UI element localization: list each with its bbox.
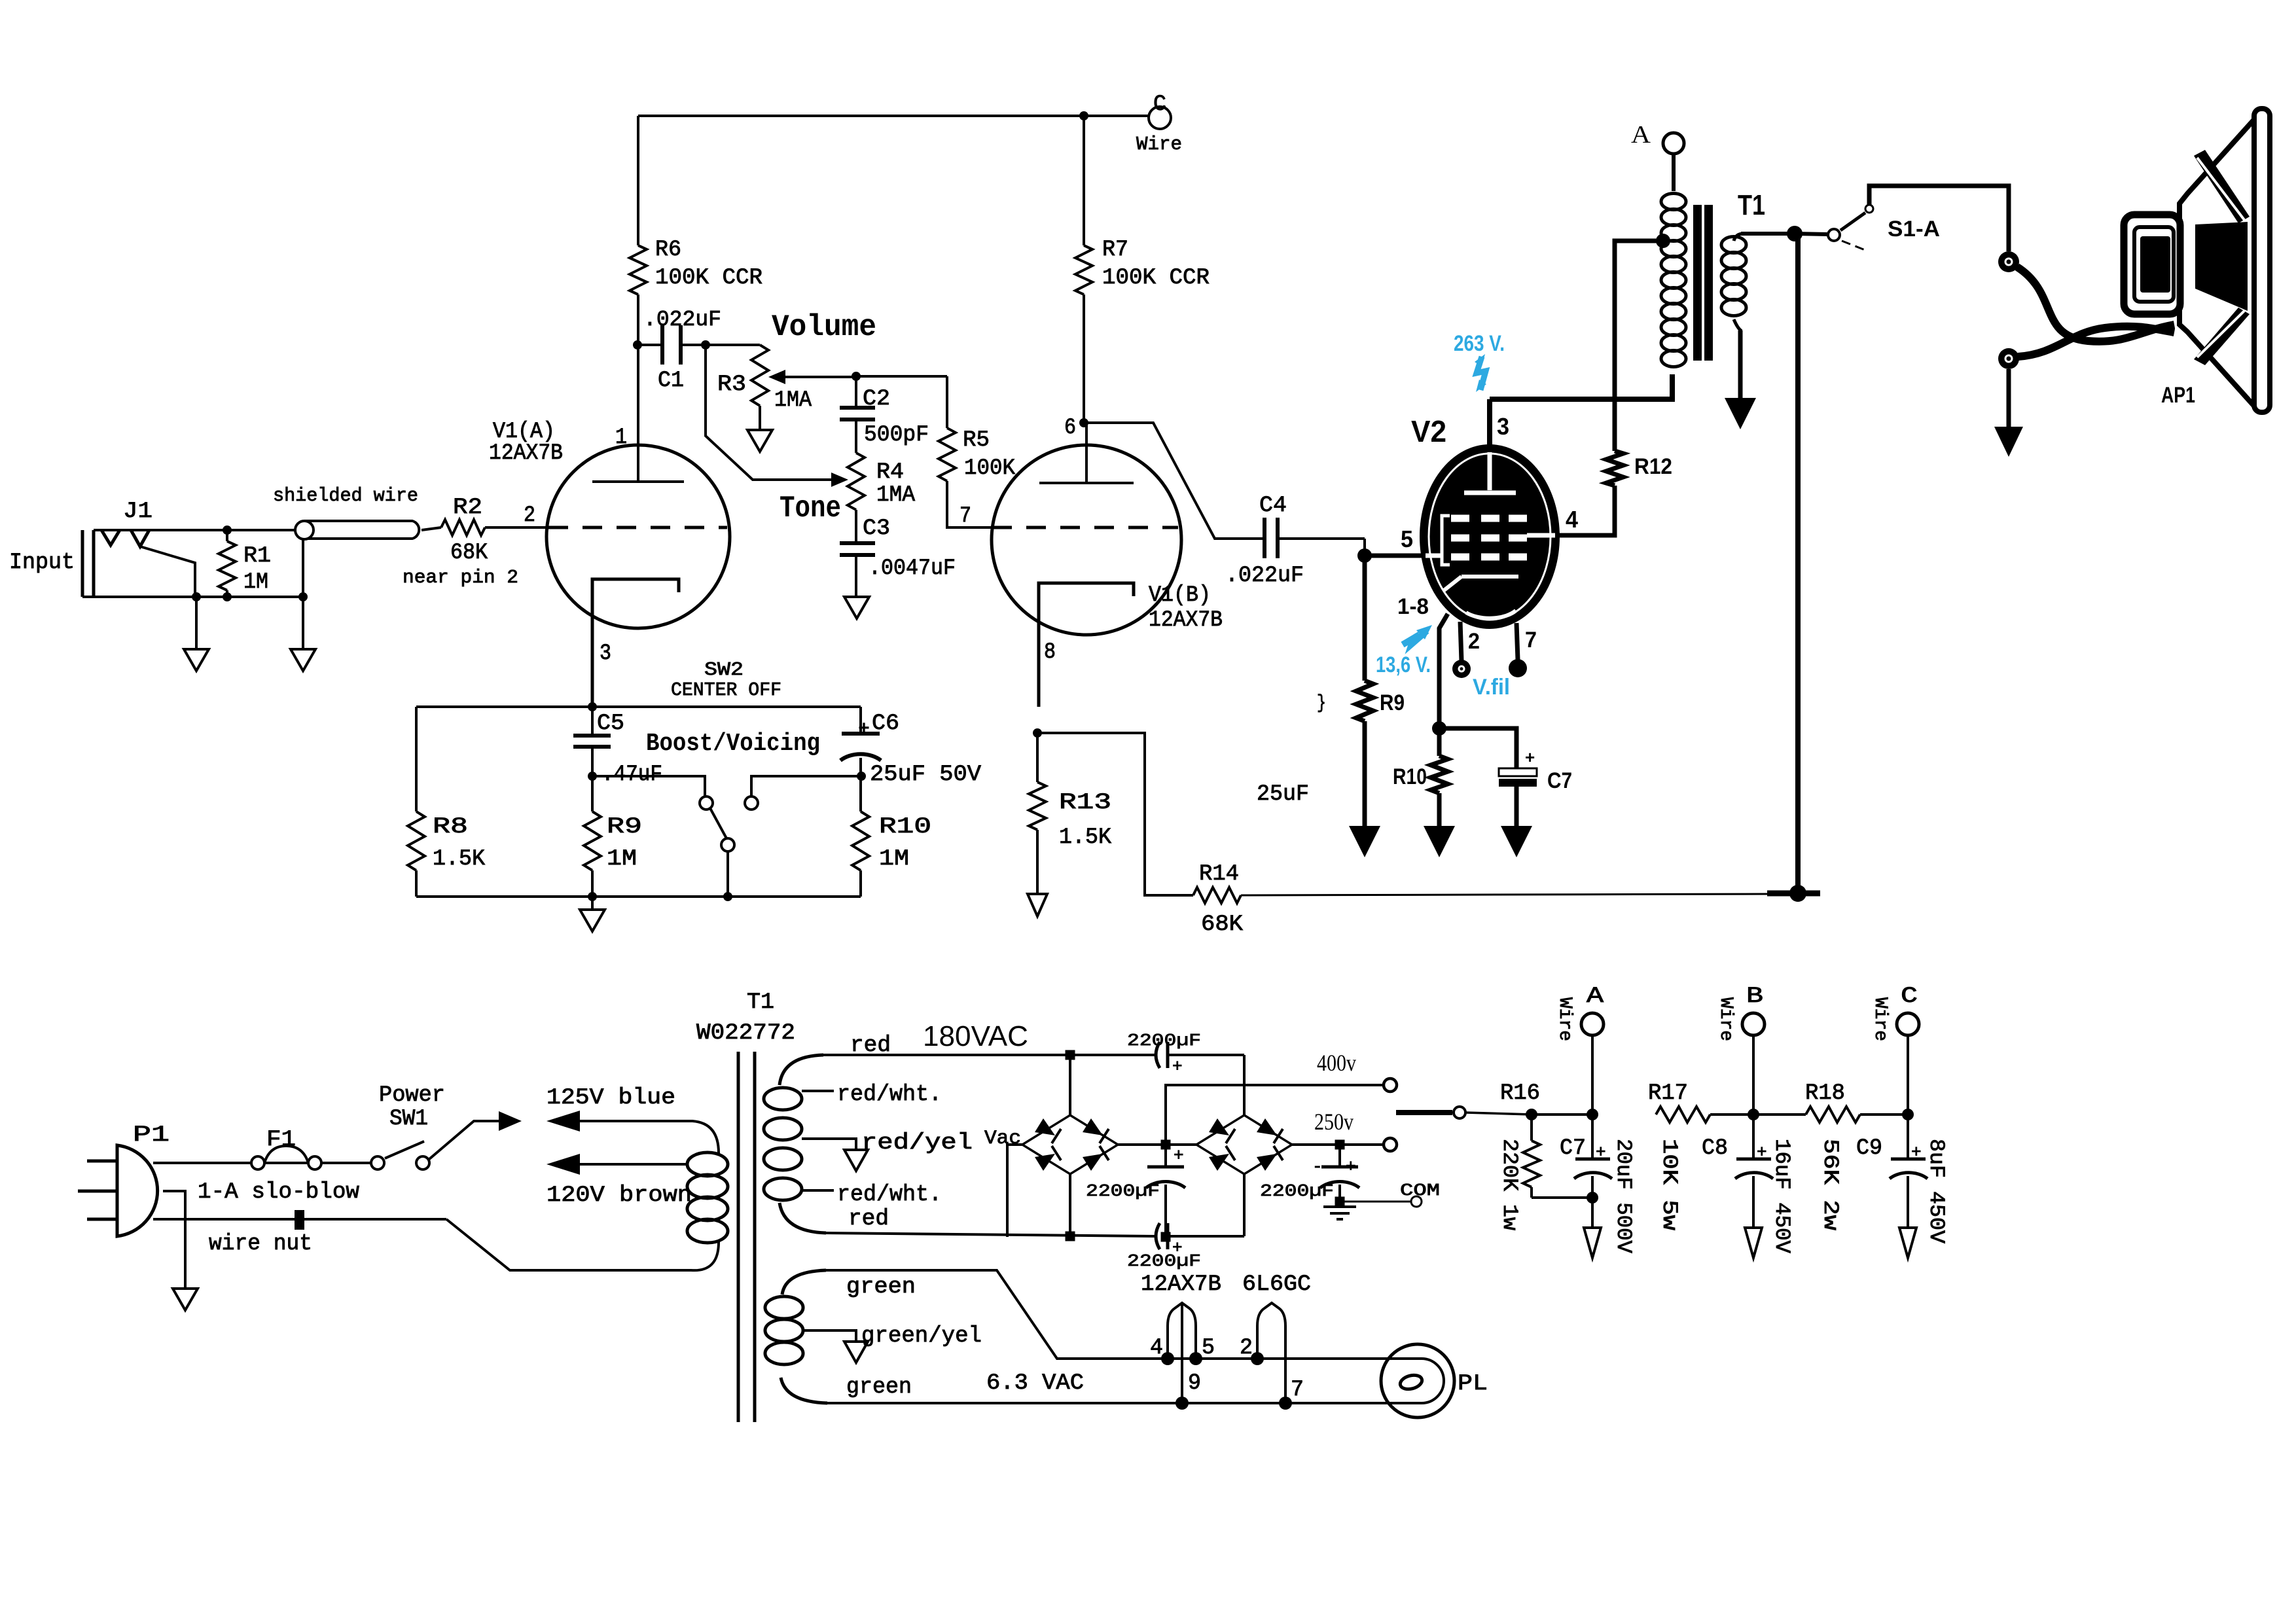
wire C1 to R3	[706, 344, 760, 346]
svg-text:red: red	[848, 1207, 889, 1232]
svg-text:green: green	[846, 1275, 916, 1300]
svg-text:Wire: Wire	[1715, 997, 1736, 1041]
svg-text:180VAC: 180VAC	[923, 1020, 1028, 1052]
svg-text:3: 3	[600, 641, 611, 666]
svg-text:Volume: Volume	[772, 310, 876, 344]
wire V2 pin 3	[1487, 399, 1492, 448]
svg-text:25uF: 25uF	[1257, 782, 1309, 807]
capacitor C7 (power supply)	[1591, 1115, 1594, 1159]
wire HV bottom rail	[826, 1233, 1155, 1236]
wire 250v connector stub	[1396, 1110, 1452, 1115]
svg-text:250v: 250v	[1314, 1109, 1354, 1135]
svg-text:SW2: SW2	[704, 659, 744, 681]
resistor R14	[1193, 887, 1241, 903]
wire SW1 to arrow	[429, 1121, 499, 1159]
svg-text:+: +	[1525, 747, 1535, 767]
svg-text:68K: 68K	[1201, 912, 1244, 937]
svg-text:8: 8	[1044, 640, 1056, 665]
svg-text:near pin 2: near pin 2	[403, 567, 518, 588]
V1A cathode (pin 3)	[592, 579, 679, 707]
ground plug	[173, 1289, 198, 1310]
wire R10 top	[859, 776, 862, 811]
svg-text:12AX7B: 12AX7B	[1149, 608, 1223, 633]
node pin 4	[1161, 1352, 1174, 1365]
capacitor C1	[637, 344, 662, 346]
svg-text:Power: Power	[379, 1083, 445, 1108]
tap red/wht lower	[802, 1189, 834, 1192]
wire C2 node to R5	[856, 375, 947, 378]
svg-text:.0047uF: .0047uF	[869, 556, 956, 581]
svg-text:4: 4	[1566, 506, 1578, 533]
svg-text:PL: PL	[1458, 1372, 1488, 1397]
svg-text:}: }	[1317, 692, 1326, 715]
svg-text:7: 7	[960, 504, 971, 529]
svg-text:8uF 450V: 8uF 450V	[1924, 1139, 1948, 1244]
wire R9 top	[591, 776, 594, 811]
wire 125V to primary	[580, 1121, 719, 1153]
svg-text:R16: R16	[1500, 1081, 1540, 1106]
speaker cone bottom slit	[2194, 308, 2250, 365]
svg-text:2200µF: 2200µF	[1127, 1251, 1201, 1271]
svg-text:C2: C2	[863, 387, 890, 412]
svg-text:V.fil: V.fil	[1473, 675, 1510, 700]
wire heater bus bottom	[827, 1402, 1388, 1404]
node pin8/R13	[1033, 728, 1042, 738]
bridge rectifier left (Vac)	[1022, 1115, 1118, 1174]
wire R5 to V1B grid (pin 7)	[947, 481, 992, 527]
svg-text:R12: R12	[1634, 454, 1672, 479]
shielded wire symbol	[304, 521, 419, 539]
svg-text:1M: 1M	[607, 847, 637, 872]
heater 6L6GC symbol	[1257, 1303, 1285, 1403]
svg-text:220K 1w: 220K 1w	[1498, 1139, 1522, 1230]
wire speaker terminal to ground	[2007, 369, 2011, 427]
svg-text:V2: V2	[1411, 414, 1446, 448]
resistor R8	[408, 811, 425, 870]
svg-text:1-8: 1-8	[1397, 594, 1429, 619]
capacitor 2200uF top	[1156, 1042, 1160, 1068]
ground SW2 rail	[591, 897, 594, 910]
svg-text:5: 5	[1401, 526, 1413, 552]
node COM junction	[1335, 1197, 1345, 1207]
ground arrow C7b	[1501, 826, 1532, 857]
connector arrow left 120V	[547, 1154, 580, 1175]
speaker AP1 baffle	[2254, 109, 2270, 412]
wire bridges mid link	[1118, 1143, 1196, 1146]
tap red/yel	[802, 1139, 856, 1150]
ground arrow secondary	[1725, 398, 1756, 429]
svg-text:Vac: Vac	[984, 1128, 1021, 1150]
svg-text:red/wht.: red/wht.	[837, 1183, 942, 1207]
svg-text:red/wht.: red/wht.	[837, 1082, 942, 1107]
svg-text:120V brown: 120V brown	[547, 1183, 692, 1208]
resistor R13	[1036, 733, 1039, 782]
svg-text:C7: C7	[1560, 1136, 1586, 1161]
svg-text:100K: 100K	[964, 456, 1016, 481]
svg-text:1MA: 1MA	[876, 483, 916, 508]
HV secondary winding	[780, 1055, 823, 1085]
svg-text:2200µF: 2200µF	[1086, 1181, 1160, 1201]
switch S1-A contact	[1828, 229, 1840, 241]
wire F1 to SW1	[321, 1162, 371, 1164]
potentiometer R3 Volume	[751, 345, 768, 406]
svg-text:1-A slo-blow: 1-A slo-blow	[198, 1180, 360, 1205]
connector arrow left 125V	[547, 1111, 580, 1132]
svg-text:12AX7B: 12AX7B	[489, 441, 563, 466]
tube V1B envelope	[992, 445, 1181, 635]
svg-text:wire nut: wire nut	[209, 1232, 312, 1257]
svg-text:2: 2	[1468, 629, 1480, 654]
svg-text:W022772: W022772	[696, 1021, 795, 1046]
node C1 left	[633, 340, 642, 349]
ground R3	[747, 430, 772, 452]
svg-text:Input: Input	[9, 550, 75, 575]
wire output bus vertical	[1795, 234, 1801, 893]
svg-text:1M: 1M	[243, 570, 268, 595]
wire R18 to C	[1860, 1113, 1908, 1116]
svg-text:J1: J1	[123, 499, 152, 524]
node pin 6	[1079, 418, 1088, 427]
wire R16 node to A node	[1532, 1113, 1592, 1116]
svg-text:20uF 500V: 20uF 500V	[1611, 1139, 1636, 1254]
resistor R12	[1606, 451, 1623, 486]
wire R9 bottom	[591, 870, 594, 897]
V2 pin 7 lead	[1516, 623, 1518, 660]
wire stub at output node	[1767, 891, 1820, 897]
wire secondary top	[1734, 234, 1744, 241]
svg-text:25uF 50V: 25uF 50V	[870, 762, 982, 787]
svg-text:+: +	[1596, 1143, 1606, 1162]
speaker cone opening	[2195, 222, 2248, 311]
terminal 250v	[1384, 1138, 1397, 1151]
node 1-8/R10/C7	[1432, 721, 1446, 736]
svg-text:S1-A: S1-A	[1888, 217, 1940, 241]
svg-text:1.5K: 1.5K	[433, 847, 486, 872]
V1A plate (pin 1)	[637, 345, 639, 482]
tap red/wht upper	[802, 1090, 834, 1092]
wire 400v riser	[1166, 1085, 1384, 1145]
svg-text:C8: C8	[1702, 1136, 1728, 1161]
svg-text:7: 7	[1291, 1378, 1304, 1402]
bridge rectifier right	[1196, 1115, 1292, 1174]
node secondary/S1A	[1787, 226, 1803, 241]
node 250v tap	[1335, 1140, 1345, 1150]
svg-text:7: 7	[1525, 628, 1537, 652]
wire R16 bottom	[1532, 1196, 1592, 1199]
capacitor 2200uF right	[1338, 1145, 1341, 1167]
switch SW2 pole contact	[721, 838, 734, 851]
node C5 bottom	[588, 772, 597, 781]
V1A grid dashed line	[548, 526, 727, 529]
svg-text:10K 5w: 10K 5w	[1657, 1139, 1681, 1230]
svg-text:R8: R8	[433, 815, 468, 840]
speaker magnet	[2124, 215, 2180, 314]
T1 core	[1693, 205, 1702, 361]
wire pin8 node to R14	[1037, 733, 1193, 895]
resistor R9 (cathode, bold)	[1356, 681, 1373, 721]
wire secondary bottom	[1734, 319, 1742, 331]
blue arrow 263V	[1477, 357, 1486, 390]
lamp PL loop	[1388, 1359, 1444, 1403]
svg-text:500pF: 500pF	[864, 423, 929, 448]
svg-text:+: +	[1757, 1143, 1767, 1162]
node SW2 pole bottom	[723, 892, 732, 901]
svg-text:Tone: Tone	[780, 491, 841, 526]
svg-text:100K CCR: 100K CCR	[1102, 266, 1210, 291]
svg-text:R17: R17	[1648, 1081, 1688, 1106]
svg-text:4: 4	[1150, 1336, 1163, 1361]
node primary tap	[1656, 234, 1670, 248]
wire A vertical	[1591, 1035, 1594, 1115]
pin 2 terminal	[1452, 660, 1471, 678]
connector arrow right	[499, 1111, 522, 1131]
connector circle	[1454, 1107, 1465, 1118]
node B rail	[1748, 1109, 1759, 1120]
wire R6 bottom to C1 node	[637, 294, 639, 345]
V2 grid bracket	[1442, 516, 1450, 565]
svg-text:400v: 400v	[1317, 1050, 1356, 1076]
svg-text:100K CCR: 100K CCR	[655, 266, 762, 291]
node pin 9	[1175, 1397, 1189, 1410]
earth ground	[1338, 1202, 1341, 1207]
svg-text:125V blue: 125V blue	[547, 1086, 675, 1111]
svg-text:2200µF: 2200µF	[1127, 1031, 1201, 1050]
heater 12AX7B symbol	[1168, 1303, 1196, 1359]
node ground rail	[588, 892, 597, 901]
pin 7 terminal	[1509, 659, 1527, 677]
wire left bridge AC- loop	[1007, 1145, 1023, 1237]
switch SW1	[371, 1156, 384, 1169]
svg-text:68K: 68K	[450, 541, 488, 565]
terminal C (wire C)	[1149, 107, 1171, 129]
svg-text:3: 3	[1497, 413, 1509, 440]
svg-text:-: -	[1312, 1157, 1323, 1177]
svg-text:2: 2	[1240, 1336, 1253, 1361]
wire R6 top	[637, 116, 639, 245]
junction node top of R7	[1079, 111, 1088, 120]
node C4/R9/pin5	[1357, 548, 1372, 563]
heater winding	[782, 1270, 826, 1294]
node pin 5	[1189, 1352, 1202, 1365]
switch SW2 left wire	[592, 776, 705, 796]
svg-text:R1: R1	[243, 544, 271, 569]
V2 pin 2 lead	[1460, 622, 1462, 661]
wire to COM	[1340, 1201, 1411, 1203]
switch S1-A lever	[1840, 213, 1865, 230]
resistor R6	[630, 245, 647, 294]
node pin 7 (6L6GC)	[1279, 1397, 1292, 1410]
svg-text:R10: R10	[1393, 764, 1427, 789]
speaker terminal bottom	[1998, 348, 2019, 369]
svg-text:R4: R4	[876, 460, 904, 485]
node R16 tap	[1526, 1109, 1537, 1120]
resistor R10 (bold)	[1431, 756, 1448, 793]
wire R10b bottom	[1437, 793, 1442, 826]
wire C7b bottom	[1515, 787, 1519, 826]
svg-text:shielded wire: shielded wire	[273, 485, 418, 507]
svg-text:2200µF: 2200µF	[1260, 1181, 1334, 1201]
wire pin3 to T1 primary	[1490, 374, 1672, 399]
plug P1	[117, 1145, 158, 1236]
V2 cathode white	[1462, 575, 1518, 579]
wire V1B plate to C4	[1084, 423, 1265, 539]
capacitor C3	[855, 510, 857, 543]
jack J1 tip contact	[101, 530, 120, 545]
svg-text:CENTER OFF: CENTER OFF	[671, 679, 781, 701]
wire node to S1A contact	[1795, 234, 1828, 234]
svg-text:green/yel: green/yel	[861, 1324, 982, 1349]
svg-text:R3: R3	[717, 372, 746, 397]
node cathode pin3	[588, 702, 597, 711]
svg-text:R6: R6	[655, 238, 681, 262]
V1B cathode (pin 8)	[1039, 583, 1134, 707]
wire C1 node down to tone wiper	[706, 345, 838, 480]
svg-text:C5: C5	[597, 711, 624, 736]
node middle cap bottom	[1161, 1232, 1171, 1242]
capacitor C8	[1752, 1115, 1755, 1159]
switch SW2 right contact	[745, 796, 758, 810]
node output bus bottom	[1789, 885, 1806, 902]
svg-text:C: C	[1901, 984, 1918, 1009]
svg-text:+: +	[1174, 1146, 1184, 1166]
ground arrow A	[1591, 1198, 1594, 1228]
node top rail left	[1066, 1050, 1075, 1060]
svg-text:AP1: AP1	[2161, 383, 2195, 408]
capacitor C4	[1263, 518, 1266, 558]
svg-text:B: B	[1746, 984, 1763, 1009]
V2 grid rows	[1451, 518, 1527, 557]
node C rail	[1902, 1109, 1914, 1120]
capacitor 2200uF bottom	[1156, 1223, 1160, 1249]
node R1 bottom	[223, 592, 232, 601]
wire R7 top	[1083, 116, 1085, 245]
node sleeve ground	[192, 592, 201, 601]
switch SW2 lever	[710, 808, 726, 838]
svg-text:+: +	[1911, 1143, 1922, 1162]
tube V1A envelope	[547, 445, 730, 628]
wire node to V2 pin 5	[1365, 554, 1424, 558]
resistor R2	[441, 520, 485, 535]
svg-text:P1: P1	[133, 1123, 170, 1148]
wire bottom rail to left bridge	[1069, 1174, 1071, 1236]
ground arrow B	[1745, 1228, 1762, 1258]
ground C3	[844, 597, 869, 618]
wire V1A cathode bus	[416, 705, 861, 708]
jack J1 ring contact	[131, 530, 149, 546]
svg-text:.022uF: .022uF	[1225, 563, 1304, 588]
svg-text:6.3 VAC: 6.3 VAC	[986, 1371, 1084, 1396]
capacitor C5	[591, 707, 594, 736]
capacitor C9	[1907, 1115, 1909, 1159]
resistor R7	[1075, 245, 1092, 294]
ground arrow speaker	[1994, 427, 2023, 457]
wire plug to F1	[153, 1162, 251, 1164]
svg-text:C7: C7	[1547, 768, 1572, 793]
speaker flexible wire top	[2017, 267, 2174, 342]
wire R10b top	[1437, 728, 1442, 756]
resistor R17	[1656, 1107, 1710, 1122]
capacitor 2200uF middle	[1164, 1145, 1167, 1167]
resistor R10	[852, 811, 869, 870]
svg-text:C1: C1	[658, 368, 684, 393]
R4 wiper arrow	[831, 473, 848, 487]
wire R9b bottom	[1363, 721, 1367, 826]
ground input rail	[302, 597, 304, 649]
wire R10 bottom	[859, 870, 862, 897]
speaker flexible wire bottom	[2018, 327, 2174, 357]
V2 plate	[1488, 452, 1492, 490]
node A rail	[1587, 1109, 1598, 1120]
R3 wiper arrow	[783, 376, 855, 378]
wire B to R18	[1753, 1113, 1806, 1116]
speaker terminal top	[1998, 251, 2019, 272]
wire R12 top to primary tap	[1615, 241, 1663, 451]
wire HV top rail	[823, 1054, 1155, 1056]
wire top rail to right bridge	[1243, 1055, 1246, 1116]
svg-text:Wire: Wire	[1554, 997, 1575, 1041]
node shield ground	[298, 592, 308, 601]
fuse F1	[251, 1156, 264, 1169]
T1 primary coil	[1661, 194, 1686, 210]
svg-text:R18: R18	[1805, 1081, 1845, 1106]
capacitor C2	[855, 376, 857, 408]
potentiometer R4 Tone	[848, 453, 865, 510]
ground arrow R10b	[1424, 826, 1455, 857]
wire R8 top	[415, 707, 418, 811]
T1 power core	[737, 1052, 740, 1422]
svg-text:C6: C6	[872, 711, 899, 736]
wire right bridge out	[1292, 1143, 1384, 1146]
resistor R5	[946, 376, 948, 428]
svg-text:COM: COM	[1400, 1181, 1440, 1200]
terminal 400v	[1384, 1079, 1397, 1092]
wire top bus from R6 to R7 and terminal C	[638, 115, 1149, 117]
svg-text:1MA: 1MA	[774, 388, 812, 413]
T1 secondary coil	[1721, 237, 1746, 253]
wire jack sleeve branch	[140, 546, 195, 597]
svg-text:16uF 450V: 16uF 450V	[1770, 1139, 1794, 1254]
wire R2 to V1A grid (pin 2)	[485, 526, 548, 529]
svg-text:R5: R5	[963, 428, 990, 453]
wire V2 pin 4 to R12	[1556, 486, 1615, 535]
svg-text:+: +	[1172, 1057, 1183, 1077]
svg-text:Wire: Wire	[1870, 997, 1890, 1041]
svg-text:13,6 V.: 13,6 V.	[1376, 652, 1431, 677]
svg-text:56K 2w: 56K 2w	[1818, 1139, 1842, 1230]
svg-text:C4: C4	[1259, 493, 1287, 518]
wire jack bottom rail	[82, 596, 303, 598]
svg-text:A: A	[1587, 984, 1604, 1009]
svg-text:+: +	[1346, 1157, 1356, 1177]
wire node to C7	[1439, 728, 1516, 768]
node A bottom	[1587, 1192, 1598, 1204]
wire S1A to speaker	[1869, 186, 2009, 251]
terminal COM	[1411, 1196, 1422, 1207]
blue arrow 13.6V	[1403, 631, 1427, 645]
switch SW2 right wire	[751, 776, 861, 796]
T1 power primary coil	[687, 1152, 728, 1176]
svg-text:R9: R9	[1380, 690, 1405, 715]
resistor R1	[226, 530, 228, 541]
svg-text:green: green	[846, 1375, 912, 1400]
wire plug ground	[163, 1191, 185, 1289]
svg-text:2: 2	[524, 503, 535, 528]
svg-text:9: 9	[1188, 1371, 1201, 1396]
node pin 2 (6L6GC)	[1251, 1352, 1264, 1365]
svg-text:Boost/Voicing: Boost/Voicing	[646, 730, 820, 758]
svg-text:C3: C3	[863, 516, 890, 541]
ground arrow R9b	[1349, 826, 1380, 857]
